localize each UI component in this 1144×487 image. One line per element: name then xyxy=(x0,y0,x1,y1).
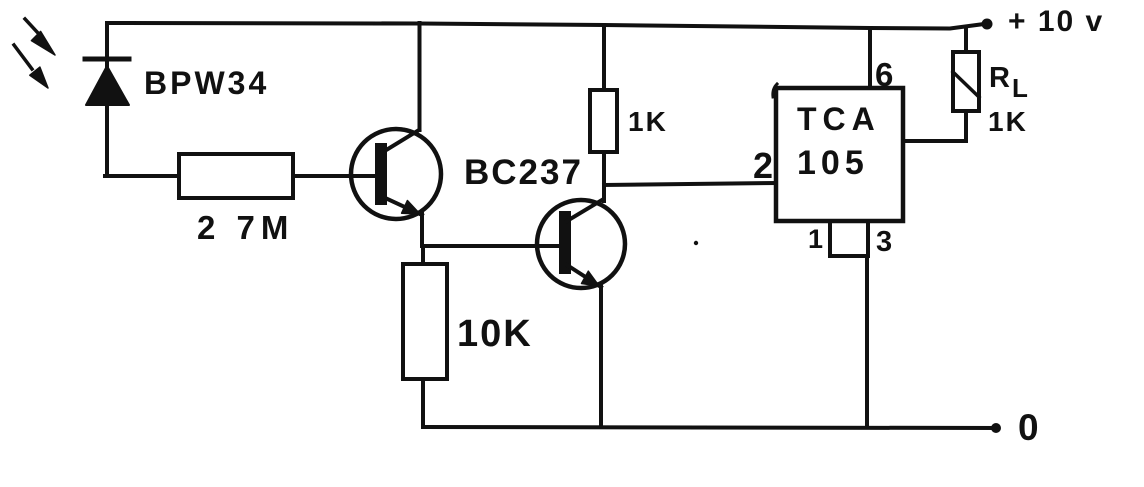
transistor Q1 xyxy=(351,129,441,219)
svg-text:105: 105 xyxy=(797,144,869,182)
wire Q1 collector to rail xyxy=(418,23,422,130)
wire diode to R 27M xyxy=(105,174,179,178)
wire node to 10K xyxy=(421,246,425,264)
node +10V terminal dot xyxy=(982,19,993,30)
photodiode D1 BPW34 xyxy=(85,23,129,176)
decorative flick top-left of U1 xyxy=(773,84,777,97)
svg-text:+ 10 v: + 10 v xyxy=(1008,5,1104,38)
pin 1/3 notch under U1 xyxy=(830,221,868,256)
svg-text:10K: 10K xyxy=(457,313,533,355)
wire U1 pin 3 to 0 rail xyxy=(865,256,869,427)
op-amp U1 TCA105 body xyxy=(776,88,903,221)
svg-text:BPW34: BPW34 xyxy=(144,65,269,101)
light arrow 1 xyxy=(25,19,55,55)
wire 1K to Q2 collector xyxy=(602,152,606,201)
wire U1 pin 6 to rail xyxy=(868,28,872,88)
transistor Q2 BC237 xyxy=(537,200,625,288)
svg-text:2 7M: 2 7M xyxy=(197,209,294,246)
svg-text:2: 2 xyxy=(753,145,773,186)
svg-text:R: R xyxy=(989,62,1010,94)
svg-text:L: L xyxy=(1012,73,1028,103)
svg-text:0: 0 xyxy=(1018,407,1039,448)
node 0 terminal dot xyxy=(991,423,1001,433)
resistor RL (with diagonal) xyxy=(953,52,979,111)
resistor R1 27M xyxy=(179,154,293,198)
wire top +10V rail xyxy=(108,23,984,29)
svg-text:1K: 1K xyxy=(988,106,1028,137)
wire Q2 collector node to TCA pin 2 xyxy=(604,183,776,185)
wire rail to 1K resistor xyxy=(602,25,606,90)
wire Q2 emitter to 0 rail xyxy=(599,285,603,427)
node Q1 emitter / 10K / Q2 base junction xyxy=(422,244,562,248)
svg-text:TCA: TCA xyxy=(797,101,881,137)
wire 0 rail xyxy=(424,427,997,428)
wire R 27M to Q1 base xyxy=(293,174,378,178)
svg-text:3: 3 xyxy=(876,226,892,258)
svg-text:6: 6 xyxy=(875,56,893,93)
svg-text:1K: 1K xyxy=(628,106,668,137)
resistor R2 10K xyxy=(403,264,447,379)
resistor R3 1K xyxy=(590,90,617,152)
stray ink speck xyxy=(694,241,698,245)
svg-text:1: 1 xyxy=(808,224,823,254)
light arrow 2 xyxy=(14,45,48,88)
wire 10K to 0 rail xyxy=(421,379,425,427)
wire Q1 emitter down to node xyxy=(420,214,424,246)
wire RL to rail xyxy=(964,28,968,52)
wire U1 output to RL xyxy=(903,111,966,141)
svg-text:BC237: BC237 xyxy=(464,153,583,192)
